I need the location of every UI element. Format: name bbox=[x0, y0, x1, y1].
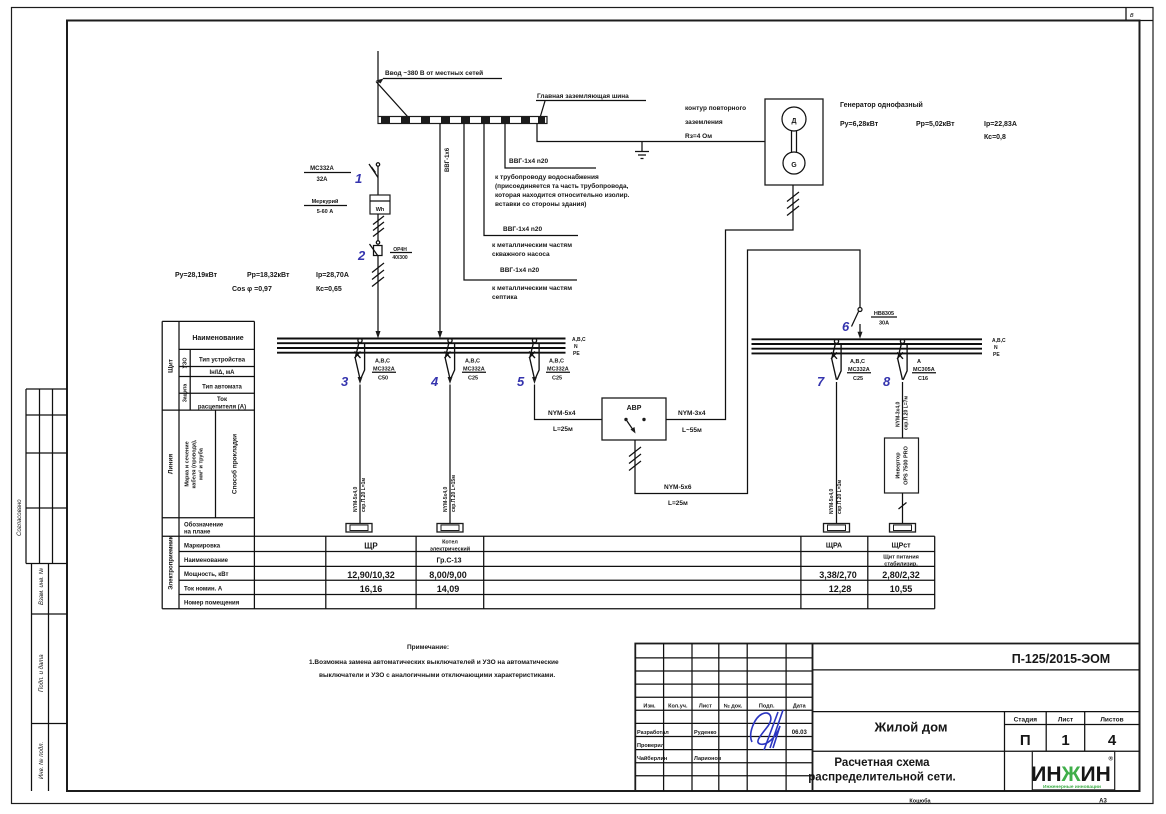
wire with cable marks below meter bbox=[373, 214, 384, 241]
svg-text:Тип автомата: Тип автомата bbox=[202, 385, 242, 391]
title block bbox=[635, 644, 1139, 792]
svg-text:к металлическим частям: к металлическим частям bbox=[492, 242, 572, 249]
svg-text:А,В,С: А,В,С bbox=[549, 359, 564, 365]
wire: earthing conductor to re-earthing loop and generator bbox=[537, 124, 765, 142]
svg-text:6: 6 bbox=[842, 319, 850, 334]
svg-text:NYM-5x4,0: NYM-5x4,0 bbox=[353, 486, 359, 512]
wire: earthing conductor to borehole pump bbox=[484, 124, 578, 236]
inverter OPS 7500 PRO bbox=[885, 438, 919, 493]
feeder table values bbox=[347, 540, 920, 594]
svg-text:скр.П.20 L=1м: скр.П.20 L=1м bbox=[837, 480, 843, 514]
svg-text:Расчетная схема: Расчетная схема bbox=[834, 757, 930, 769]
svg-text:1: 1 bbox=[1061, 732, 1069, 749]
svg-text:ИНЖИН: ИНЖИН bbox=[1031, 763, 1111, 786]
label: Генератор однофазный ratings bbox=[840, 101, 1017, 141]
svg-text:МС332А: МС332А bbox=[310, 166, 334, 172]
busbar: reserve bus А,В,С N РЕ bbox=[752, 338, 1007, 358]
svg-text:ВВГ-1x6: ВВГ-1x6 bbox=[445, 147, 451, 172]
svg-text:Инвертор: Инвертор bbox=[896, 452, 902, 479]
wire: PE conductor ВВГ-1х6 to panel bus bbox=[438, 124, 452, 339]
svg-text:Наименование: Наименование bbox=[192, 335, 243, 342]
svg-text:Рр=5,02кВт: Рр=5,02кВт bbox=[916, 121, 955, 128]
logo ИНЖИН bbox=[1031, 751, 1114, 790]
svg-text:А: А bbox=[917, 359, 921, 365]
svg-text:30А: 30А bbox=[879, 321, 889, 327]
svg-text:Щит питания: Щит питания bbox=[883, 555, 919, 561]
svg-text:L=25м: L=25м bbox=[553, 426, 573, 433]
wire: cable NYM-3х4 L~55м from generator to АВР bbox=[666, 185, 799, 434]
svg-text:8: 8 bbox=[883, 374, 891, 389]
wire: earthing conductor to water pipe bbox=[505, 124, 596, 169]
svg-text:Ларионов: Ларионов bbox=[694, 756, 722, 762]
svg-text:Инженерные инновации: Инженерные инновации bbox=[1043, 784, 1101, 790]
svg-text:А,В,С: А,В,С bbox=[465, 359, 480, 365]
svg-text:Iн/IΔ, мА: Iн/IΔ, мА bbox=[209, 370, 235, 376]
svg-text:Кс=0,65: Кс=0,65 bbox=[316, 286, 342, 293]
svg-text:А,В,С: А,В,С bbox=[992, 338, 1006, 344]
svg-text:УЗО: УЗО bbox=[183, 357, 189, 369]
svg-text:4: 4 bbox=[1108, 732, 1117, 749]
svg-text:скр.П.20 L=15м: скр.П.20 L=15м bbox=[451, 475, 457, 512]
svg-text:L~55м: L~55м bbox=[682, 427, 702, 434]
busbar: panel ЩР bus А,В,С N РЕ bbox=[277, 337, 586, 357]
title block texts bbox=[637, 652, 1124, 805]
svg-text:NYM-5x4,0: NYM-5x4,0 bbox=[443, 486, 449, 512]
breaker 8 (МС305А С16) bbox=[883, 339, 907, 389]
svg-text:ЩРст: ЩРст bbox=[891, 543, 911, 550]
svg-text:септика: септика bbox=[492, 294, 518, 301]
svg-text:Изм.: Изм. bbox=[643, 704, 656, 710]
svg-text:к трубопроводу водоснабжения: к трубопроводу водоснабжения bbox=[495, 173, 599, 181]
label: breaker 5 А,В,С МС332А С25 bbox=[546, 359, 570, 382]
wire: cable NYM-3х4,0 to inverter bbox=[896, 382, 910, 438]
svg-text:электрический: электрический bbox=[430, 546, 470, 553]
switch 1 (МС332А 32А) bbox=[355, 163, 380, 195]
svg-text:Разработал: Разработал bbox=[637, 729, 669, 736]
svg-text:Способ прокладки: Способ прокладки bbox=[231, 434, 239, 494]
svg-text:Лист: Лист bbox=[699, 704, 712, 710]
left margin tables bbox=[17, 389, 67, 791]
panel box ЩРст bbox=[890, 524, 916, 533]
wire: cable NYM-5х4,0 to Котел bbox=[443, 385, 457, 524]
svg-text:3: 3 bbox=[341, 374, 349, 389]
svg-text:МС332А: МС332А bbox=[547, 367, 569, 373]
svg-text:1.Возможна замена автоматическ: 1.Возможна замена автоматических выключа… bbox=[309, 658, 559, 666]
svg-text:Мощность, кВт: Мощность, кВт bbox=[184, 572, 228, 578]
svg-text:ЩР: ЩР bbox=[364, 542, 378, 551]
svg-text:NYM-5x6: NYM-5x6 bbox=[664, 484, 692, 491]
svg-text:06.03: 06.03 bbox=[792, 730, 808, 736]
svg-text:Листов: Листов bbox=[1100, 717, 1123, 724]
wire: cable NYM-5х4 L=25м to АВР input bbox=[535, 385, 603, 434]
svg-text:контур повторного: контур повторного bbox=[685, 105, 746, 112]
svg-text:скр.П.20 L=7м: скр.П.20 L=7м bbox=[904, 396, 910, 430]
svg-text:Подп. и дата: Подп. и дата bbox=[39, 654, 45, 692]
svg-text:вставки со стороны здания): вставки со стороны здания) bbox=[495, 201, 586, 208]
wire: cable NYM-5х4,0 to ЩРА bbox=[829, 382, 843, 524]
svg-text:ВВГ-1x4 n20: ВВГ-1x4 n20 bbox=[503, 226, 542, 233]
svg-text:МС332А: МС332А bbox=[373, 367, 395, 373]
svg-text:кабеля (провода),: кабеля (провода), bbox=[191, 439, 198, 488]
label: ОР4Н 40/300 bbox=[390, 247, 412, 261]
wire with cable marks to panel bus bbox=[372, 256, 384, 339]
svg-text:G: G bbox=[791, 162, 797, 169]
svg-text:расцепителя (А): расцепителя (А) bbox=[198, 405, 246, 411]
svg-text:Электроприемник: Электроприемник bbox=[169, 536, 175, 589]
svg-text:АВР: АВР bbox=[627, 405, 642, 412]
wire: cable NYM-5х4,0 to ЩР bbox=[353, 385, 367, 524]
label: НВ8305 30А bbox=[871, 311, 897, 327]
wire: earthing conductor to septic tank bbox=[464, 124, 577, 281]
svg-text:Меркурий: Меркурий bbox=[312, 198, 339, 205]
svg-text:N: N bbox=[574, 344, 578, 350]
svg-text:14,09: 14,09 bbox=[437, 584, 460, 594]
svg-text:Руденко: Руденко bbox=[694, 730, 717, 736]
svg-text:32А: 32А bbox=[316, 177, 328, 183]
svg-text:П: П bbox=[1020, 732, 1031, 749]
svg-text:Взам. инв. №: Взам. инв. № bbox=[38, 567, 45, 605]
svg-text:Соs φ =0,97: Соs φ =0,97 bbox=[232, 286, 272, 293]
svg-text:скр.П.20 L=1м: скр.П.20 L=1м bbox=[361, 478, 367, 512]
breaker 4 (МС332А С25) bbox=[430, 338, 455, 389]
svg-text:Тип устройства: Тип устройства bbox=[199, 357, 246, 364]
svg-text:8,00/9,00: 8,00/9,00 bbox=[429, 570, 467, 580]
label: ВВГ-1х4 n20 к металлическим частям скважного насоса bbox=[492, 226, 572, 258]
svg-text:Iр=28,70А: Iр=28,70А bbox=[316, 272, 349, 279]
wire: supply tap diagonal to main earthing bus bbox=[376, 82, 408, 118]
busbar: main earthing bus (ГЗШ) bbox=[378, 117, 547, 124]
svg-text:С25: С25 bbox=[853, 376, 863, 382]
panel box ЩР bbox=[346, 524, 372, 533]
svg-text:Рр=18,32кВт: Рр=18,32кВт bbox=[247, 272, 290, 279]
ground: earth electrode symbol bbox=[635, 142, 649, 159]
svg-text:12,90/10,32: 12,90/10,32 bbox=[347, 570, 395, 580]
svg-text:РЕ: РЕ bbox=[993, 352, 1000, 358]
svg-text:Стадия: Стадия bbox=[1014, 717, 1038, 724]
label: МС332А 32А bbox=[304, 166, 351, 183]
svg-text:НВ8305: НВ8305 bbox=[874, 311, 894, 317]
svg-text:2: 2 bbox=[357, 248, 366, 263]
svg-text:А,В,С: А,В,С bbox=[572, 337, 586, 343]
svg-text:Защита: Защита bbox=[183, 384, 189, 403]
svg-text:Iр=22,83А: Iр=22,83А bbox=[984, 121, 1017, 128]
breaker 7 (МС332А С25) bbox=[817, 339, 841, 389]
svg-text:С50: С50 bbox=[378, 376, 388, 382]
svg-text:N: N bbox=[994, 345, 998, 351]
svg-text:№ док.: № док. bbox=[724, 704, 743, 710]
svg-text:выключатели и УЗО с аналогичны: выключатели и УЗО с аналогичными отключа… bbox=[319, 672, 555, 679]
svg-text:Дата: Дата bbox=[793, 704, 807, 710]
breaker 3 (МС332А С50) bbox=[341, 338, 365, 389]
svg-text:А,В,С: А,В,С bbox=[850, 359, 865, 365]
svg-text:А,В,С: А,В,С bbox=[375, 359, 390, 365]
svg-text:Маркировка: Маркировка bbox=[184, 544, 221, 550]
breaker 5 (МС332А С25) bbox=[517, 338, 539, 389]
svg-text:ЩРА: ЩРА bbox=[826, 543, 842, 550]
svg-text:Кол.уч.: Кол.уч. bbox=[668, 704, 688, 710]
svg-text:Ток номин. А: Ток номин. А bbox=[184, 587, 223, 593]
svg-text:РЕ: РЕ bbox=[573, 351, 580, 357]
label: Меркурий 5-60 А bbox=[304, 198, 347, 215]
svg-text:Согласовано: Согласовано bbox=[17, 499, 23, 536]
generator G1 (Д-G set) bbox=[765, 99, 823, 185]
svg-text:4: 4 bbox=[430, 374, 439, 389]
svg-text:МС332А: МС332А bbox=[463, 367, 485, 373]
label: installation ratings Ру Рр Iр bbox=[175, 272, 349, 293]
switch 6 (НВ8305 30А) bbox=[842, 308, 863, 339]
svg-text:NYM-3x4,0: NYM-3x4,0 bbox=[896, 401, 902, 427]
svg-text:NYM-5x4,0: NYM-5x4,0 bbox=[829, 488, 835, 514]
svg-text:12,28: 12,28 bbox=[829, 584, 852, 594]
signature (blue) bbox=[751, 710, 783, 750]
svg-text:Номер помещения: Номер помещения bbox=[184, 601, 240, 607]
label: breaker 4 А,В,С МС332А С25 bbox=[462, 359, 486, 382]
svg-text:5-60 А: 5-60 А bbox=[317, 209, 334, 215]
feeder table grid bbox=[162, 321, 935, 608]
svg-text:Котел: Котел bbox=[442, 540, 458, 546]
svg-text:П-125/2015-ЭОМ: П-125/2015-ЭОМ bbox=[1012, 652, 1110, 666]
svg-text:С25: С25 bbox=[552, 376, 562, 382]
svg-text:Генератор однофазный: Генератор однофазный bbox=[840, 101, 923, 109]
svg-text:Инв. № подл.: Инв. № подл. bbox=[38, 742, 45, 779]
svg-text:Проверил: Проверил bbox=[637, 743, 665, 749]
wire: incoming supply drop bbox=[377, 51, 379, 117]
svg-text:Ток: Ток bbox=[217, 397, 227, 403]
svg-text:OPS 7500 PRO: OPS 7500 PRO bbox=[904, 445, 910, 485]
panel box ЩРА bbox=[824, 524, 850, 533]
svg-text:Жилой дом: Жилой дом bbox=[873, 720, 947, 735]
svg-text:®: ® bbox=[1109, 756, 1114, 763]
svg-text:скважного насоса: скважного насоса bbox=[492, 251, 550, 258]
label: breaker 8 А МС305А С16 bbox=[912, 359, 936, 382]
svg-text:Марка и сечение: Марка и сечение bbox=[185, 441, 191, 486]
svg-text:Главная заземляющая шина: Главная заземляющая шина bbox=[537, 93, 629, 100]
svg-text:L=25м: L=25м bbox=[668, 500, 688, 507]
svg-text:Лист: Лист bbox=[1058, 717, 1073, 724]
panel box Котел bbox=[437, 524, 463, 533]
notes Примечание bbox=[309, 644, 559, 679]
svg-text:40/300: 40/300 bbox=[392, 255, 408, 261]
svg-text:Линия: Линия bbox=[168, 454, 175, 474]
svg-text:Гр.С-13: Гр.С-13 bbox=[436, 558, 461, 565]
svg-text:10,55: 10,55 bbox=[890, 584, 913, 594]
svg-text:Ввод ~380 В от местных сетей: Ввод ~380 В от местных сетей bbox=[385, 69, 483, 77]
label: контур повторного заземления Rз=4 Ом bbox=[685, 105, 746, 140]
svg-text:Ру=28,19кВт: Ру=28,19кВт bbox=[175, 272, 218, 279]
svg-text:Подп.: Подп. bbox=[759, 704, 775, 710]
label: ВВГ-1х4 n20 к трубопроводу водоснабжения bbox=[495, 158, 630, 208]
svg-text:С25: С25 bbox=[468, 376, 478, 382]
wire with break mark to ЩРст bbox=[899, 493, 907, 524]
svg-text:мм² и труба: мм² и труба bbox=[198, 447, 205, 480]
svg-text:2,80/2,32: 2,80/2,32 bbox=[882, 570, 920, 580]
svg-text:NYM-3x4: NYM-3x4 bbox=[678, 410, 706, 417]
wire: cable NYM-5х6 L=25м from АВР output bbox=[629, 250, 860, 507]
label: Ввод ~380 В от местных сетей bbox=[376, 69, 502, 84]
svg-text:Кс=0,8: Кс=0,8 bbox=[984, 134, 1006, 141]
svg-text:3,38/2,70: 3,38/2,70 bbox=[819, 570, 857, 580]
RCD 2 (ОР4Н 40/300) bbox=[357, 241, 382, 263]
svg-text:1: 1 bbox=[355, 171, 362, 186]
svg-text:Ру=6,28кВт: Ру=6,28кВт bbox=[840, 121, 879, 128]
АВР transfer switch bbox=[602, 398, 666, 440]
svg-text:NYM-5x4: NYM-5x4 bbox=[548, 410, 576, 417]
label: breaker 3 А,В,С МС332А С50 bbox=[372, 359, 396, 382]
svg-text:Примечание:: Примечание: bbox=[407, 644, 449, 651]
label: ВВГ-1х4 n20 к металлическим частям септика bbox=[492, 267, 572, 301]
label: breaker 7 А,В,С МС332А С25 bbox=[847, 359, 871, 382]
svg-text:Обозначение: Обозначение bbox=[184, 522, 224, 529]
svg-text:которая находится относительно: которая находится относительно изолир. bbox=[495, 192, 630, 199]
svg-text:С16: С16 bbox=[918, 376, 928, 382]
svg-text:в: в bbox=[1130, 12, 1134, 19]
svg-text:к металлическим частям: к металлическим частям bbox=[492, 285, 572, 292]
svg-text:Щит: Щит bbox=[168, 359, 175, 373]
svg-text:ВВГ-1x4 n20: ВВГ-1x4 n20 bbox=[509, 158, 548, 165]
svg-text:Коцюба: Коцюба bbox=[909, 798, 931, 805]
meter Wh (Меркурий 5-60А) bbox=[370, 195, 390, 214]
svg-text:распределительной сети.: распределительной сети. bbox=[808, 772, 955, 784]
svg-text:Rз=4 Ом: Rз=4 Ом bbox=[685, 133, 712, 140]
svg-text:(присоединяется та часть трубо: (присоединяется та часть трубопровода, bbox=[495, 182, 629, 190]
svg-text:5: 5 bbox=[517, 374, 525, 389]
label: Главная заземляющая шина bbox=[536, 93, 646, 116]
svg-text:Wh: Wh bbox=[376, 207, 385, 213]
svg-text:МС305А: МС305А bbox=[913, 367, 935, 373]
svg-text:МС332А: МС332А bbox=[848, 367, 870, 373]
svg-text:Наименование: Наименование bbox=[184, 558, 229, 564]
svg-text:16,16: 16,16 bbox=[360, 584, 383, 594]
svg-text:А3: А3 bbox=[1099, 799, 1107, 805]
svg-text:стабилизир.: стабилизир. bbox=[884, 561, 918, 568]
svg-text:заземления: заземления bbox=[685, 119, 723, 126]
svg-text:ВВГ-1x4 n20: ВВГ-1x4 n20 bbox=[500, 267, 539, 274]
feeder table header texts bbox=[168, 335, 247, 607]
svg-text:Чайберлин: Чайберлин bbox=[637, 755, 667, 762]
svg-text:на плане: на плане bbox=[184, 530, 211, 536]
svg-text:7: 7 bbox=[817, 374, 825, 389]
svg-text:Д: Д bbox=[792, 118, 797, 125]
